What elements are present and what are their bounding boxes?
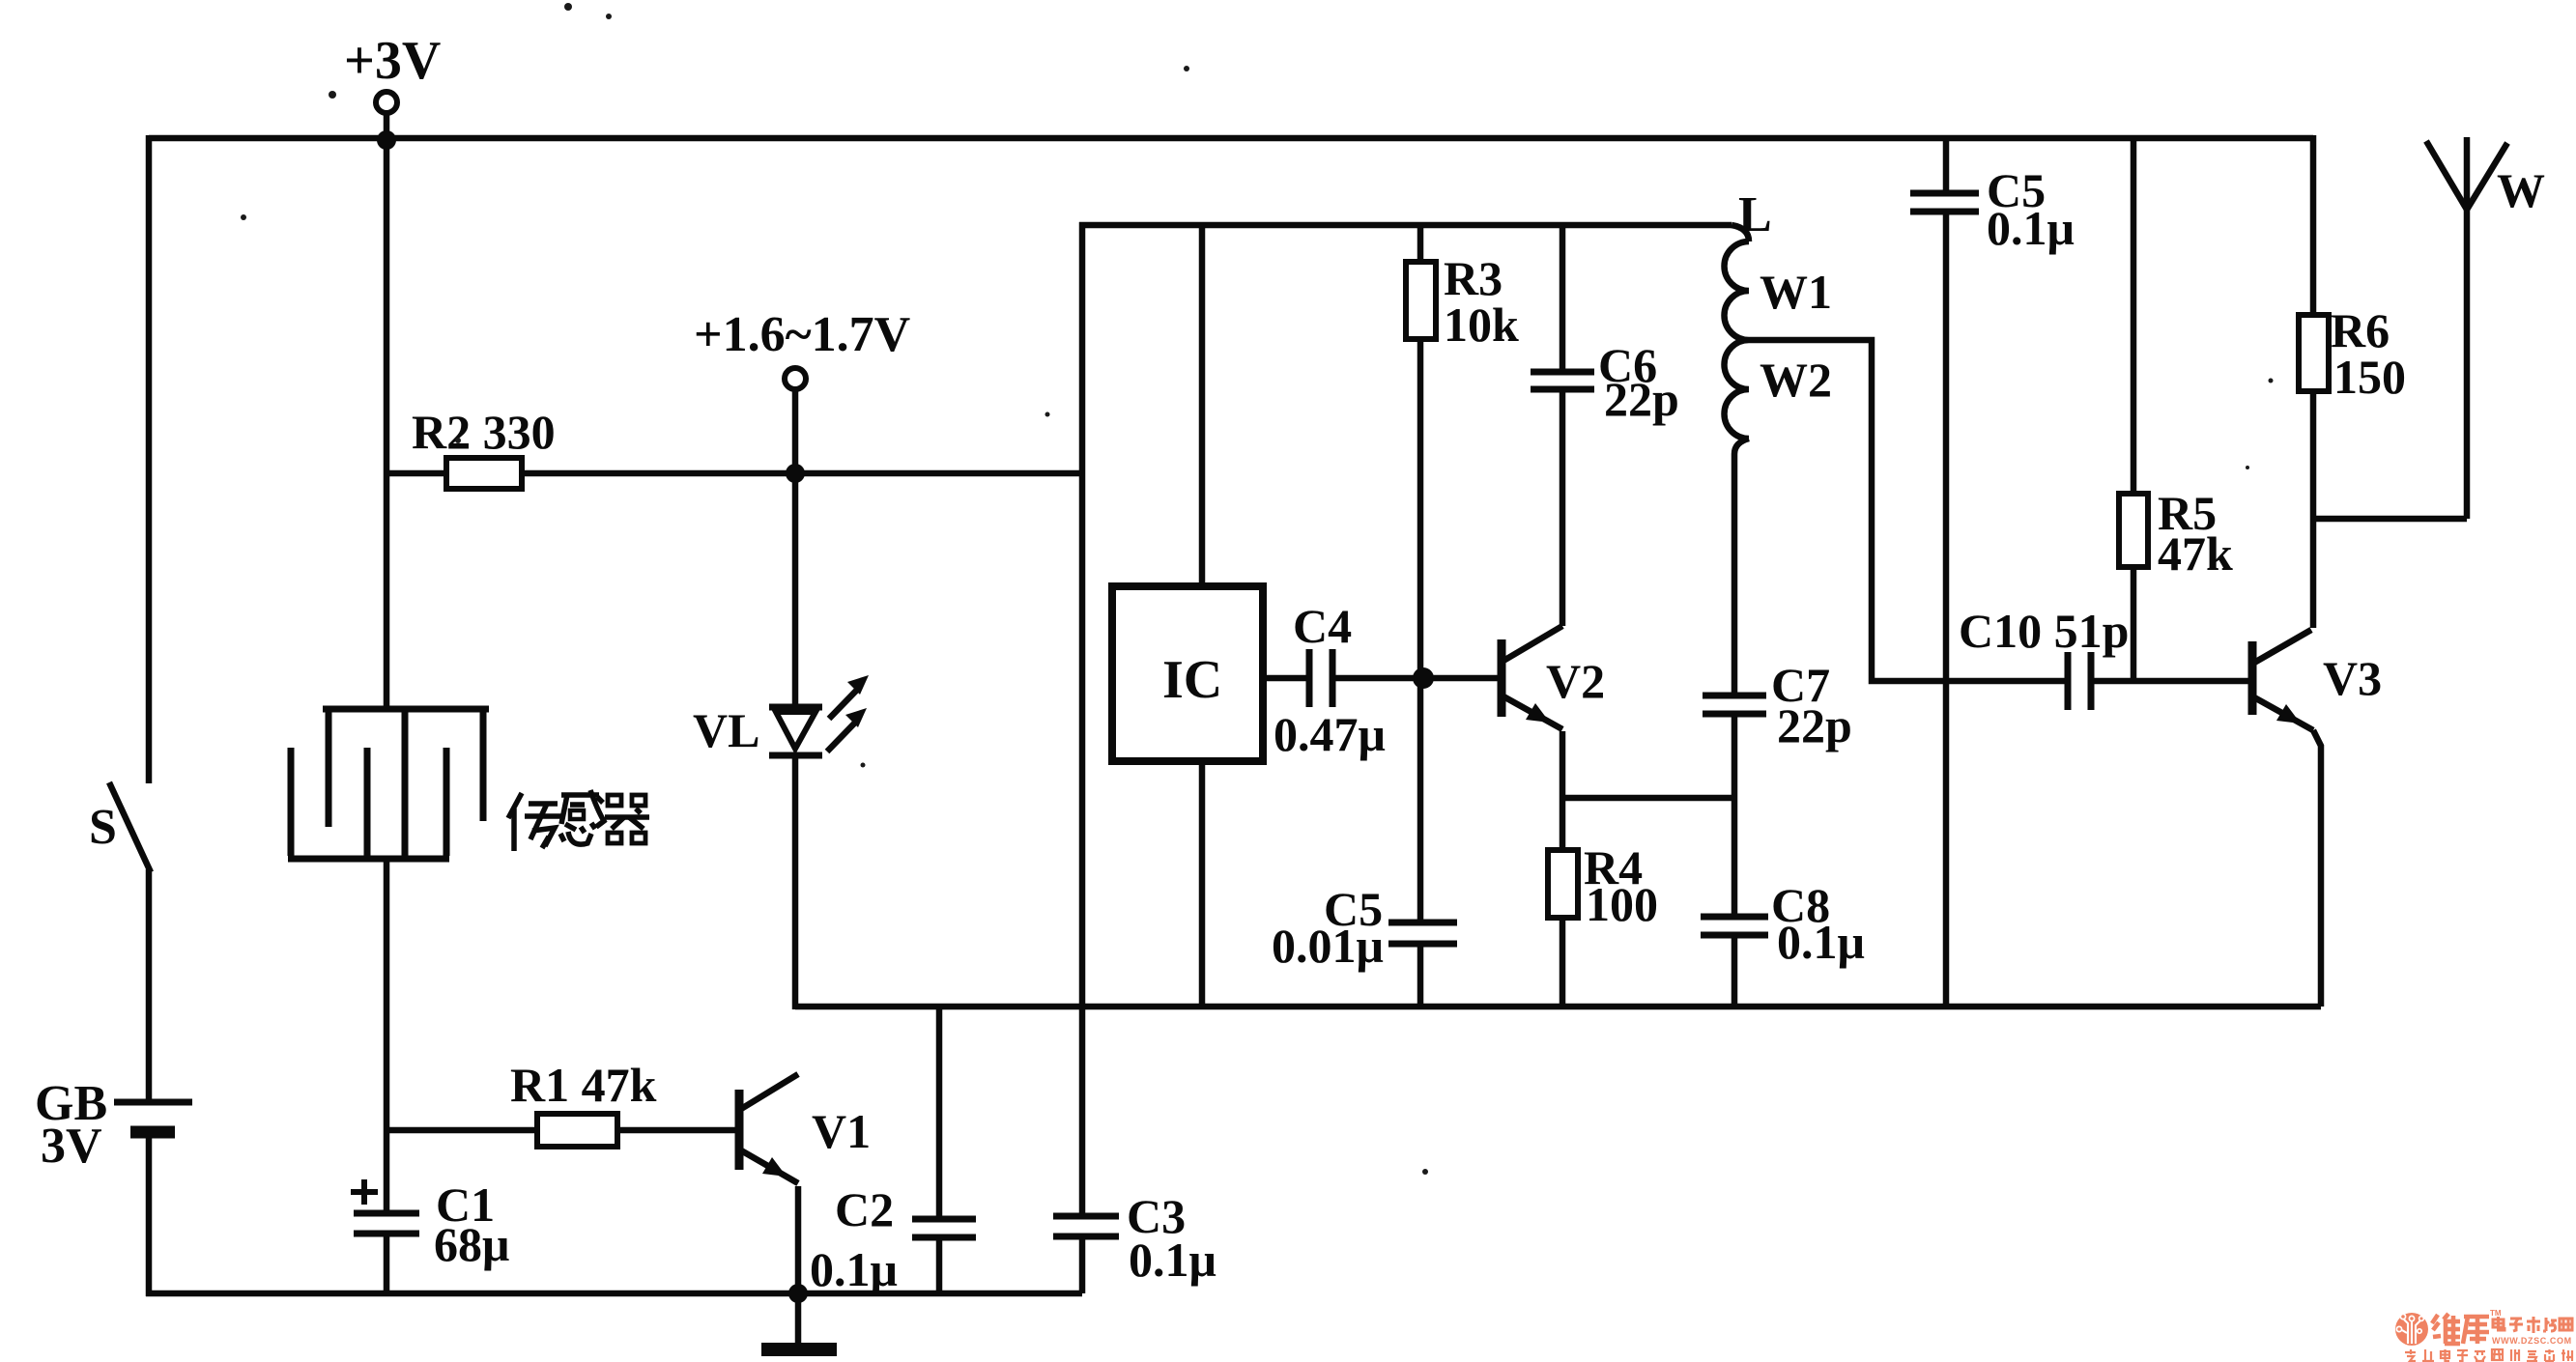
wire inner top rail <box>1079 222 1732 229</box>
wire sensor top feed <box>384 140 390 706</box>
svg-text:L: L <box>1738 187 1772 242</box>
capacitor C10 51p <box>2068 652 2091 710</box>
watermark slogan (CJK blocks) <box>2405 1349 2572 1361</box>
svg-text:W2: W2 <box>1760 353 1832 407</box>
svg-text:0.1μ: 0.1μ <box>1987 201 2075 255</box>
capacitor C1 68u electrolytic <box>354 1213 419 1234</box>
wire LED cathode down to mid rail <box>792 758 799 1009</box>
svg-text:V2: V2 <box>1546 654 1605 708</box>
wire +1.6V node to LED <box>792 473 799 706</box>
wire left vertical upper (to switch) <box>146 135 153 783</box>
svg-text:IC: IC <box>1162 650 1222 710</box>
svg-text:0.47μ: 0.47μ <box>1274 707 1386 761</box>
switch S <box>109 782 151 872</box>
svg-text:W1: W1 <box>1760 265 1832 319</box>
scan noise specks <box>241 3 2274 1175</box>
svg-text:C2: C2 <box>835 1182 894 1236</box>
node junction C4/R3/V2 base <box>1413 667 1434 689</box>
svg-text:22p: 22p <box>1777 698 1852 752</box>
svg-text:68μ: 68μ <box>434 1217 509 1271</box>
wire R6 to antenna <box>2313 516 2467 523</box>
antenna W <box>2464 137 2471 519</box>
svg-text:0.1μ: 0.1μ <box>1777 915 1865 969</box>
resistor R6 150 <box>2310 135 2317 315</box>
capacitor C5 0.1u (top right) <box>1943 138 1950 190</box>
V3 emitter arrowhead <box>2276 704 2301 724</box>
battery GB 3V <box>114 1102 192 1132</box>
resistor R3 10k <box>1417 225 1424 262</box>
capacitor C7 22p <box>1703 695 1766 714</box>
wire W1/W2 tap <box>1749 340 2065 681</box>
svg-text:C10 51p: C10 51p <box>1959 604 2129 658</box>
terminal +1.6~1.7V <box>785 368 806 389</box>
svg-text:R1 47k: R1 47k <box>510 1058 657 1112</box>
capacitor C6 22p <box>1531 372 1594 389</box>
capacitor C3 0.1u <box>1053 1216 1119 1236</box>
node junction at +3V on top rail <box>377 130 396 150</box>
wire sensor bottom feed <box>384 859 390 1210</box>
svg-text:C4: C4 <box>1293 599 1352 653</box>
transistor V3 <box>2252 630 2321 1007</box>
V1 emitter arrowhead <box>762 1157 787 1177</box>
svg-text:0.01μ: 0.01μ <box>1272 919 1384 973</box>
svg-text:100: 100 <box>1586 877 1658 931</box>
svg-text:R2 330: R2 330 <box>412 405 556 459</box>
svg-text:3V: 3V <box>41 1119 102 1174</box>
node junction R2 / +1.6V <box>786 464 805 483</box>
svg-text:10k: 10k <box>1444 298 1519 352</box>
capacitor C2 0.1u <box>936 1007 943 1216</box>
wire mid rail (circuit common) <box>795 1004 2321 1010</box>
svg-text:22p: 22p <box>1604 372 1679 426</box>
watermark text dianzishichangwang (CJK blocks) <box>2493 1317 2572 1333</box>
svg-text:W: W <box>2497 163 2545 217</box>
transistor V2 <box>1502 626 1562 795</box>
wire bottom ground rail <box>146 1291 1082 1297</box>
wire battery to bottom rail <box>146 1134 153 1296</box>
LED light arrows <box>827 675 869 752</box>
wire V2 collector up <box>1560 392 1566 626</box>
svg-text:150: 150 <box>2333 350 2406 404</box>
IC U1 <box>1199 225 1206 586</box>
terminal +3V <box>376 92 397 113</box>
svg-text:WWW.DZSC.COM: WWW.DZSC.COM <box>2492 1336 2572 1346</box>
watermark logo weiku <box>2395 1313 2428 1346</box>
node junction V1 emitter on bottom rail <box>788 1284 808 1303</box>
wire V2 emitter tee <box>1562 795 1734 802</box>
transistor V1 <box>739 1074 798 1293</box>
resistor R1 47k <box>386 1127 537 1134</box>
wire left vertical (switch to battery) <box>146 869 153 1100</box>
svg-text:0.1μ: 0.1μ <box>810 1242 898 1296</box>
wire C1 to bottom rail <box>384 1236 390 1293</box>
LED VL <box>769 707 822 755</box>
svg-text:V1: V1 <box>812 1104 871 1158</box>
C1 plus sign <box>351 1179 378 1205</box>
capacitor C5 0.01u <box>1388 922 1457 944</box>
resistor R5 47k <box>2131 138 2137 494</box>
resistor R2 330 <box>386 470 446 477</box>
ground <box>795 1293 802 1343</box>
label chuanganqi (sensor, hand-drawn CJK) <box>508 790 649 851</box>
svg-text:V3: V3 <box>2323 651 2382 705</box>
svg-text:47k: 47k <box>2158 526 2233 581</box>
wire +3V stub <box>384 113 390 141</box>
svg-text:+1.6~1.7V: +1.6~1.7V <box>694 307 910 362</box>
svg-text:TM: TM <box>2490 1309 2502 1318</box>
capacitor C8 0.1u <box>1701 917 1768 935</box>
wire top supply rail <box>149 135 2313 142</box>
sensor (gas sensor electrodes) <box>288 709 489 859</box>
V2 emitter arrowhead <box>1526 703 1550 723</box>
wire terminal stub <box>792 389 799 472</box>
capacitor C4 0.47u <box>1263 675 1306 682</box>
svg-text:0.1μ: 0.1μ <box>1129 1233 1216 1287</box>
svg-text:+3V: +3V <box>344 31 441 91</box>
inductor L (windings W1 W2) <box>1732 225 1749 241</box>
watermark text weiku (CJK strokes) <box>2432 1314 2489 1344</box>
svg-text:VL: VL <box>693 703 759 757</box>
resistor R4 100 <box>1560 795 1566 850</box>
svg-text:S: S <box>89 800 117 855</box>
wire inner box left edge <box>1079 222 1086 1213</box>
